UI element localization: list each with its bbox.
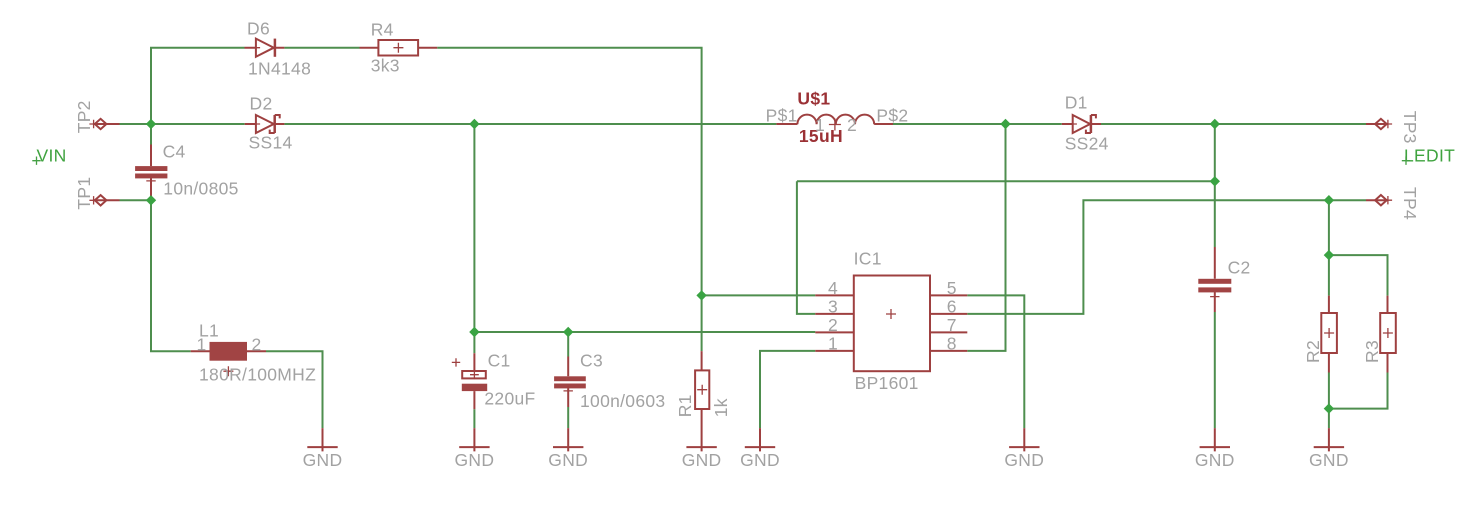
diode D2 schottky [245,115,285,133]
junction TP4 node [1324,195,1334,205]
junction node C [1000,119,1010,129]
wire C1 bottom to GND [473,409,475,428]
svg-text:GND: GND [548,450,588,470]
test point TP2 [89,119,119,129]
IC1 pin 8 [930,333,967,353]
wire C3 node down to C3 [567,332,569,357]
junction node G [1324,250,1334,260]
svg-text:SS24: SS24 [1065,133,1109,153]
wire node D to TP3 [1215,123,1366,125]
wire feedback top horizontal to node F [797,180,1215,182]
wire D6 to R4 [284,47,359,49]
inductor U$1 [776,115,893,131]
ground GND IC1 pin5 [1004,428,1044,470]
svg-text:TP3: TP3 [1400,111,1420,144]
wire top branch: D6 feed from VIN node [151,48,245,124]
svg-text:GND: GND [303,450,343,470]
svg-text:R1: R1 [675,394,695,417]
wire node B to U$1 [474,123,776,125]
junction node D [1210,119,1220,129]
svg-text:P$1: P$1 [766,105,798,125]
LEDIT origin cross [1402,157,1410,165]
svg-text:BP1601: BP1601 [855,373,919,393]
wire IC1 pin 8 up to node C [967,124,1005,351]
svg-text:R4: R4 [371,20,394,40]
svg-text:1k: 1k [711,398,731,417]
svg-text:C2: C2 [1228,258,1251,278]
svg-text:C1: C1 [488,351,511,371]
svg-text:GND: GND [1195,450,1235,470]
wire node E down and right to L1 [151,200,191,351]
svg-text:C4: C4 [163,142,186,162]
capacitor C2 [1198,247,1231,312]
test point TP4 [1366,195,1392,205]
wire L1 to GND [266,351,323,428]
svg-text:3k3: 3k3 [371,56,400,76]
ground GND L1 [303,428,343,470]
wire R2 bottom to node H [1328,373,1330,409]
wire node D down to C2 [1214,124,1216,247]
svg-text:GND: GND [740,450,780,470]
capacitor C3 [554,357,586,408]
svg-text:C3: C3 [580,351,603,371]
svg-text:LEDIT: LEDIT [1404,146,1455,166]
wire node H to GND [1328,409,1330,429]
svg-text:IC1: IC1 [854,249,882,269]
wire TP4 node down to node G [1328,200,1330,255]
svg-text:2: 2 [828,315,838,335]
svg-text:D6: D6 [247,18,270,38]
diode D6 [245,39,285,57]
wire C2 bottom to GND [1214,312,1216,428]
wire node B down to C1 node [473,124,475,332]
svg-text:TP4: TP4 [1400,187,1420,220]
IC1 pin 1 [815,333,854,353]
wire C1 node down to C1 [473,332,475,353]
IC1 pin 2 [815,315,854,335]
wire U$1 to node C [893,123,1006,125]
capacitor C4 [135,145,167,201]
wire R3 bottom to node H [1329,373,1388,409]
wire to IC1 pin 3 [797,181,815,314]
svg-text:2: 2 [847,115,857,135]
svg-text:1: 1 [815,115,825,135]
wire C3 bottom to GND [567,407,569,428]
test point TP1 [89,195,119,205]
svg-text:D1: D1 [1065,93,1088,113]
svg-text:SS14: SS14 [249,132,293,152]
svg-text:TP2: TP2 [74,100,94,133]
ground GND C2 [1195,428,1235,470]
svg-text:180R/100MHZ: 180R/100MHZ [199,365,316,385]
svg-text:TP1: TP1 [74,177,94,210]
diode D1 schottky [1062,115,1101,133]
svg-text:5: 5 [947,278,957,298]
svg-text:7: 7 [947,315,957,335]
wire IC1 pin 1 to GND [760,351,815,428]
junction feedback node [696,290,706,300]
svg-text:GND: GND [1004,450,1044,470]
wire node A down to C4 [150,124,152,145]
wire R4 to feedback vertical down to R1 [437,48,701,351]
svg-text:D2: D2 [250,94,273,114]
wire node G down to R2 top [1328,255,1330,296]
op-amp IC1 body [854,276,930,372]
wire IC1 pin 6 to TP4 [967,200,1366,314]
svg-text:GND: GND [455,450,495,470]
resistor R1 [695,351,709,451]
svg-text:1: 1 [828,333,838,353]
svg-text:4: 4 [828,278,838,298]
svg-text:1N4148: 1N4148 [248,59,311,79]
svg-text:R3: R3 [1362,340,1382,363]
junction node A [146,119,156,129]
VIN origin cross [32,157,40,165]
svg-text:6: 6 [947,296,957,316]
wire IC1 pin 5 to GND [967,295,1024,428]
wire node C to D1 [1006,123,1062,125]
ground GND C1 [455,428,495,470]
resistor R4 [360,40,438,56]
inductor L1 [191,342,266,376]
test point TP3 [1366,119,1392,129]
IC1 pin 4 [815,278,854,298]
resistor R2 [1321,296,1337,373]
svg-text:8: 8 [947,333,957,353]
ground GND R1 [682,447,722,470]
junction node H [1324,403,1334,413]
capacitor C1 polarized [452,353,487,409]
svg-text:3: 3 [828,296,838,316]
wire feedback node to IC1 pin 4 [702,294,816,296]
wire TP2 to node A [120,123,152,125]
junction C1 node [469,327,479,337]
junction C3 node [563,327,573,337]
wire node G right to R3 top [1329,255,1388,296]
svg-text:2: 2 [252,335,262,355]
svg-text:U$1: U$1 [797,89,830,109]
svg-text:220uF: 220uF [484,388,535,408]
ground GND R2 R3 [1309,428,1349,470]
wire D2 to node B [284,123,474,125]
svg-text:P$2: P$2 [876,105,908,125]
svg-text:VIN: VIN [37,146,67,166]
IC1 pin 7 [930,315,967,335]
wire D1 to node D [1101,123,1215,125]
svg-text:1: 1 [197,335,207,355]
ground GND IC1 pin1 [740,428,780,470]
IC1 pin 3 [815,296,854,316]
resistor R3 [1380,296,1396,373]
IC1 pin 6 [930,296,967,316]
junction node F [1210,176,1220,186]
IC1 pin 5 [930,278,967,298]
svg-text:10n/0805: 10n/0805 [163,179,238,199]
junction node B [469,119,479,129]
wire bus to IC1 pin 2 [474,331,815,333]
junction node E [146,195,156,205]
svg-text:GND: GND [682,450,722,470]
svg-text:100n/0603: 100n/0603 [580,391,665,411]
wire TP1 to node E [120,199,152,201]
ground GND C3 [548,428,588,470]
svg-text:R2: R2 [1303,340,1323,363]
wire node A to D2 [151,123,245,125]
svg-text:GND: GND [1309,450,1349,470]
